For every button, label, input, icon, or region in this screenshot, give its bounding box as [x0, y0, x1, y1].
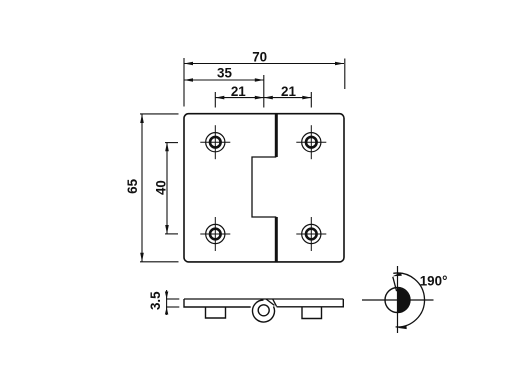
- svg-text:21: 21: [281, 84, 296, 99]
- side view left leaf strip: [184, 299, 251, 307]
- dimension 40 line: [165, 142, 178, 234]
- dimension 65 line: [140, 114, 179, 262]
- svg-text:40: 40: [154, 180, 169, 195]
- svg-text:35: 35: [217, 65, 232, 80]
- side view right leaf strip: [277, 299, 344, 307]
- detail open leaf line: [393, 277, 397, 291]
- dimension 21 left line: [215, 92, 263, 108]
- svg-text:70: 70: [252, 50, 267, 65]
- knuckle notch: [252, 157, 276, 217]
- detail pin circle: [385, 288, 410, 313]
- dimension 35 line: [184, 75, 264, 108]
- hole top-right: [296, 125, 326, 159]
- side view pin hole: [258, 305, 269, 316]
- hole top-left: [200, 125, 230, 159]
- detail swing arc 190: [393, 273, 424, 327]
- hinge leaf gap line upper: [275, 114, 278, 157]
- svg-text:190°: 190°: [420, 273, 448, 288]
- hole bottom-right: [296, 217, 326, 251]
- side view knuckle outer: [253, 300, 275, 322]
- dimension 3.5 line: [165, 290, 179, 315]
- side view right tab: [302, 307, 322, 319]
- hinge plate outline: [184, 114, 344, 262]
- svg-text:65: 65: [125, 178, 140, 193]
- detail arc arrow bottom: [398, 326, 407, 330]
- side view left tab: [206, 307, 226, 318]
- side view wrap line 2: [273, 299, 277, 306]
- detail axis horizontal: [362, 299, 434, 301]
- detail axis vertical: [397, 266, 399, 333]
- detail arc arrow top: [393, 272, 402, 276]
- svg-text:21: 21: [231, 84, 246, 99]
- svg-text:3.5: 3.5: [148, 291, 163, 310]
- hinge leaf gap line lower: [275, 217, 278, 262]
- side view strip top edge: [184, 298, 343, 300]
- dimension 21 right line: [264, 92, 312, 108]
- hole bottom-left: [200, 217, 230, 251]
- side view wrap line 1: [266, 299, 274, 305]
- detail filled half disc: [398, 288, 410, 313]
- dimension 70 line: [184, 58, 345, 107]
